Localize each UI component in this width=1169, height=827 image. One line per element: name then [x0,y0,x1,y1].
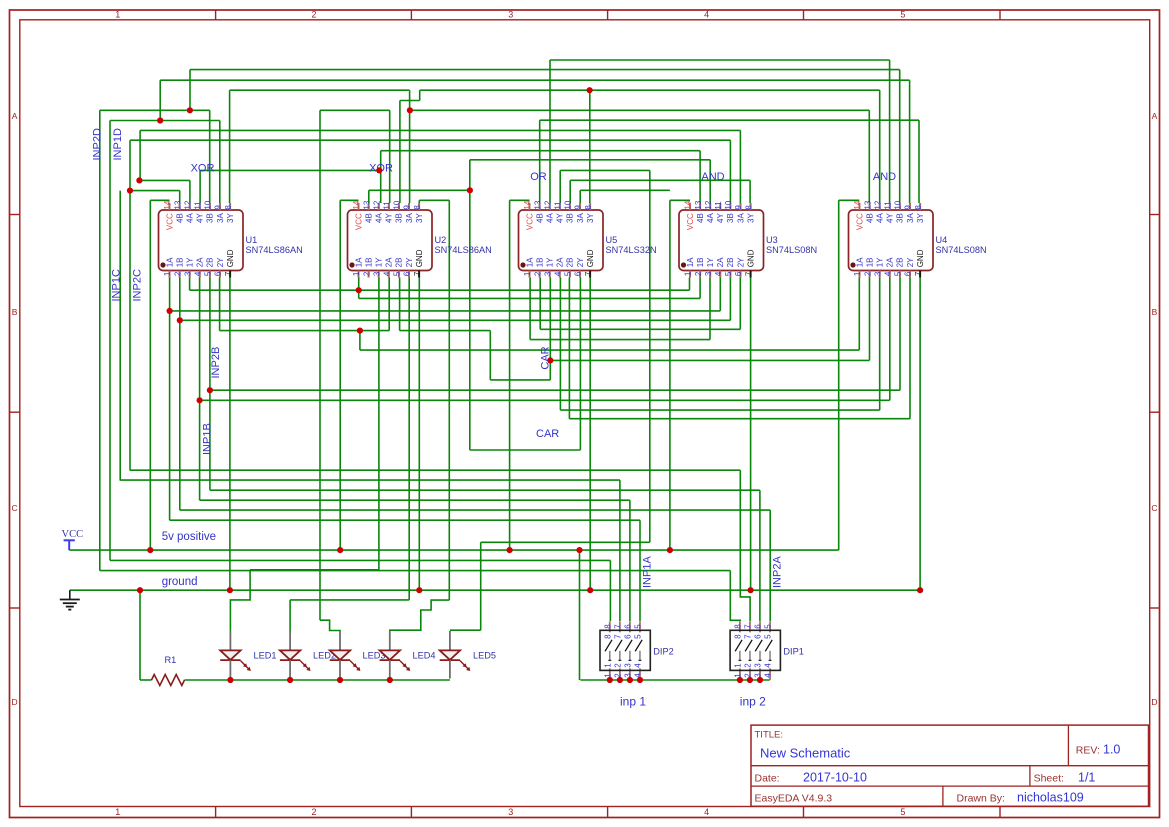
wire net y90 right to U4 pin12 [420,89,880,91]
svg-text:GND: GND [226,249,235,267]
svg-text:3B: 3B [395,213,404,223]
wire INP1D y560.4 to DIP2.8 [110,559,610,561]
wire U2 VCC riser to rail [339,200,341,550]
junction DIP1.2 rail [747,677,753,683]
svg-text:2A: 2A [385,257,394,267]
ground symbol [60,590,80,609]
svg-text:5: 5 [900,10,905,20]
svg-text:3A: 3A [906,213,915,223]
wire U4 VCC riser to rail [838,200,840,550]
svg-text:4: 4 [704,10,709,20]
wire INP2A y320.3 [180,319,731,321]
svg-text:5: 5 [564,271,573,276]
junction LED1 rail [227,677,233,683]
svg-text:U5: U5 [606,235,618,245]
svg-text:2B: 2B [566,258,575,268]
svg-text:1Y: 1Y [186,257,195,267]
svg-text:4A: 4A [706,213,715,223]
svg-text:1: 1 [163,271,172,276]
wire U5 VCC riser to rail [509,200,511,550]
svg-text:A: A [1152,111,1158,121]
svg-text:1B: 1B [865,258,874,268]
svg-text:3: 3 [183,271,192,276]
junction VCC rail x150 [147,547,153,553]
wire VCC rail y550.1 [69,549,839,551]
wire INP2C y140.2 to U3 pin10 [130,139,730,141]
wire U3 pin12 riser [709,160,711,203]
wire U4 pin3 1Y drop [879,278,881,411]
wire y150.7 to U3 pin13 [381,150,700,152]
svg-text:4: 4 [554,271,563,276]
svg-text:4: 4 [764,663,773,668]
svg-text:2: 2 [362,271,371,276]
wire y130.4 to U3 pin9 [140,129,740,131]
wire CAR staircase h [490,379,550,381]
wire U1 pin7 GND drop [229,278,231,591]
svg-text:6: 6 [734,271,743,276]
wire INP2D y570.6 to DIP1.8 [100,570,731,572]
wire DIP common riser x579.5 [579,550,581,680]
wire VCC feed U5 pin14 [510,199,530,201]
wire U2 pin5 drop CAR [399,278,401,331]
svg-text:10: 10 [393,200,402,209]
svg-text:3A: 3A [736,213,745,223]
svg-text:1Y: 1Y [546,257,555,267]
svg-text:4: 4 [634,673,643,678]
svg-text:LED4: LED4 [413,651,436,661]
wire R1 left stub [140,679,152,681]
junction INP1A y310.9 [167,308,173,314]
svg-text:3: 3 [543,271,552,276]
junction DIP1.1 rail [737,677,743,683]
junction INP2A y320.3 [177,317,183,323]
svg-text:2Y: 2Y [576,257,585,267]
junction LED4 rail [387,677,393,683]
wire z-drop x359.9 [359,331,361,351]
svg-text:Date:: Date: [755,773,780,785]
svg-text:8: 8 [584,205,593,210]
svg-text:1: 1 [523,271,532,276]
svg-text:5: 5 [204,271,213,276]
svg-text:3: 3 [508,807,513,817]
svg-text:10: 10 [204,200,213,209]
wire U5.4B y180.3 to U3 pin8 [570,179,750,181]
wire CAR y330.6 seg [400,330,491,332]
wire CAR y360.4 to U4.1B [550,359,869,361]
wire U3 pin10 riser [729,140,731,203]
XOR IC U2 SN74LS86AN [348,200,492,277]
svg-text:5: 5 [634,634,643,639]
svg-text:INP2A: INP2A [772,556,784,588]
svg-text:4A: 4A [876,213,885,223]
LED LED4 [380,631,411,679]
svg-text:4: 4 [634,663,643,668]
svg-text:3Y: 3Y [586,213,595,223]
wire U5 pin11 riser [559,170,561,203]
DIP switch DIP1 [730,621,780,680]
svg-text:1: 1 [684,271,693,276]
wire DIP2 pin8 drop [609,560,611,621]
svg-text:2Y: 2Y [906,257,915,267]
svg-text:5: 5 [724,271,733,276]
svg-text:U1: U1 [246,235,258,245]
frame tick right [1150,607,1160,609]
svg-text:4: 4 [704,807,709,817]
junction VCC rail x340 [337,547,343,553]
svg-text:INP1B: INP1B [201,423,213,455]
wire INP2D to U1 pin10 y110.3 [100,109,210,111]
junction XOR2 y170.4 [376,167,382,173]
svg-text:3: 3 [624,663,633,668]
svg-text:4: 4 [764,673,773,678]
wire U4 pin6 2Y drop [909,278,911,419]
wire LED2 feed drop [289,600,291,631]
svg-text:3B: 3B [726,213,735,223]
LED LED5 [440,631,471,679]
junction CAR y360.4 [547,357,553,363]
wire INP2C branch y190.6 to U1 pin13 [130,190,180,192]
svg-text:XOR: XOR [191,163,215,175]
svg-text:1A: 1A [855,257,864,267]
svg-text:Sheet:: Sheet: [1034,773,1064,785]
svg-text:LED1: LED1 [254,651,277,661]
junction y110 right [407,107,413,113]
wire DIP2 pin5 drop [639,520,641,621]
svg-text:VCC: VCC [686,213,695,230]
svg-text:2A: 2A [556,257,565,267]
svg-text:10: 10 [894,200,903,209]
junction VCC rail x669.9 [667,547,673,553]
svg-text:EasyEDA V4.9.3: EasyEDA V4.9.3 [755,793,833,805]
wire DIP common rail y680 [580,679,769,681]
svg-text:12: 12 [704,200,713,209]
svg-text:3Y: 3Y [746,213,755,223]
svg-text:AND: AND [701,171,724,183]
svg-text:U3: U3 [766,235,778,245]
resistor R1 [152,675,185,686]
frame tick bottom [803,807,805,818]
svg-text:4: 4 [884,271,893,276]
svg-text:ground: ground [162,576,198,588]
wire net y110.3 right to U4 pin13 [410,109,870,111]
svg-text:1: 1 [115,807,120,817]
svg-text:5: 5 [764,634,773,639]
wire drop x140.1 [139,130,141,180]
wire U1 pin10 riser [209,110,211,203]
svg-text:4: 4 [714,271,723,276]
svg-text:11: 11 [383,201,392,210]
svg-text:INP1A: INP1A [642,556,654,588]
svg-text:3Y: 3Y [226,213,235,223]
svg-text:2: 2 [614,663,623,668]
svg-text:2017-10-10: 2017-10-10 [803,771,867,785]
wire INP2A y510.1 to DIP1.5 [180,509,770,511]
wire drop x409.6 to U2 pin9 [409,90,411,203]
wire U2 pin1 drop [358,278,360,299]
wire DIP1 pin8 jog [730,571,740,621]
svg-text:11: 11 [194,201,203,210]
wire U4 pin5 drop [899,278,901,391]
wire U2 pin13 riser [368,190,370,203]
wire INP1C vertical [119,191,121,481]
svg-text:3Y: 3Y [415,213,424,223]
wire U4 pin12 riser [879,90,881,203]
wire INP1D vertical [109,121,111,561]
wire net U1.1Y y290.2 [190,289,690,291]
svg-text:VCC: VCC [354,213,363,230]
wire R1 riser [139,590,141,680]
wire U4 pin1 drop [858,278,860,351]
wire U3 pin9 riser [739,130,741,203]
VCC power symbol [64,540,75,550]
svg-text:2A: 2A [716,257,725,267]
svg-text:14: 14 [163,200,172,209]
wire U3 pin6 drop [739,278,741,330]
svg-text:2B: 2B [206,258,215,268]
svg-text:4Y: 4Y [886,213,895,223]
junction ground rail R1 [137,587,143,593]
junction INP2B y390.2 [207,387,213,393]
svg-text:12: 12 [183,200,192,209]
svg-text:4: 4 [383,271,392,276]
svg-text:7: 7 [614,624,623,629]
wire INP1A y310.9 [170,310,721,312]
wire U1 pin8 riser [229,90,231,203]
svg-text:1A: 1A [686,257,695,267]
svg-text:3B: 3B [566,213,575,223]
svg-text:1Y: 1Y [876,257,885,267]
wire U1 pin5 INP2B vertical [209,278,211,491]
wire LED5 net vertical x480.7 [480,542,482,630]
svg-text:4Y: 4Y [716,213,725,223]
wire CAR staircase v1 [489,331,491,380]
wire LED3 staircase [320,620,340,631]
svg-text:7: 7 [744,624,753,629]
svg-text:5: 5 [634,624,643,629]
svg-text:C: C [1151,503,1157,513]
svg-text:8: 8 [734,634,743,639]
wire U5 pin6 drop [579,278,581,451]
wire DIP2 pin7 drop [619,480,621,621]
wire U5 pin12 riser [549,60,551,203]
svg-text:3A: 3A [405,213,414,223]
svg-text:VCC: VCC [525,213,534,230]
svg-text:GND: GND [415,249,424,267]
svg-text:2B: 2B [395,258,404,268]
svg-text:4A: 4A [186,213,195,223]
svg-text:INP2D: INP2D [92,128,104,160]
svg-text:8: 8 [413,205,422,210]
svg-text:inp 2: inp 2 [740,695,766,709]
wire U1 pin12 riser [189,180,191,203]
svg-text:10: 10 [564,200,573,209]
frame tick bottom [215,807,217,818]
junction LED3 rail [337,677,343,683]
frame tick top [215,10,217,20]
svg-text:D: D [12,697,18,707]
title block [751,725,1149,806]
wire U2 pin4 drop [388,278,390,331]
XOR IC U1 SN74LS86AN [159,200,303,277]
svg-text:3: 3 [754,663,763,668]
svg-text:D: D [1151,697,1157,707]
svg-text:7: 7 [614,634,623,639]
svg-text:1: 1 [734,663,743,668]
wire DIP1 pin7 jog [740,470,750,621]
wire U2 pin11 riser [389,110,391,203]
svg-text:9: 9 [214,205,223,210]
svg-text:2: 2 [311,10,316,20]
wire U5 pin4 drop [559,278,561,411]
svg-text:INP2B: INP2B [210,347,222,379]
wire U1 VCC riser to rail [149,200,151,550]
svg-text:3B: 3B [206,213,215,223]
svg-text:1: 1 [604,663,613,668]
svg-text:A: A [12,111,18,121]
wire y120 right U5.13 to U4.8 [540,119,919,121]
svg-text:5v positive: 5v positive [162,531,216,543]
svg-text:1A: 1A [525,257,534,267]
wire VCC feed U2 pin14 [340,199,358,201]
wire U5 pin10 riser [569,180,571,203]
svg-text:14: 14 [853,200,862,209]
svg-text:INP1D: INP1D [112,128,124,160]
wire U3 pin5 drop [729,278,731,321]
svg-text:3Y: 3Y [916,213,925,223]
svg-text:6: 6 [754,634,763,639]
wire VCC feed U4 pin14 [839,199,860,201]
wire U4 pin13 riser [868,110,870,203]
wire U3.2Y to U5.1B y329.3 [540,328,740,330]
wire U4 pin2 drop [869,278,871,361]
frame tick top [410,10,412,20]
svg-text:DIP1: DIP1 [783,647,803,657]
svg-text:8: 8 [914,205,923,210]
svg-text:2Y: 2Y [736,257,745,267]
svg-text:1: 1 [352,271,361,276]
svg-text:1B: 1B [364,258,373,268]
svg-text:CAR: CAR [540,346,552,369]
wire INP1B y500.2 to DIP2.6 [200,499,630,501]
wire VCC feed U1 pin14 [150,199,169,201]
svg-text:3A: 3A [576,213,585,223]
LED LED3 [330,631,361,679]
svg-text:B: B [12,307,18,317]
LED LED2 [280,631,311,679]
wire U4 pin11 riser [889,60,891,203]
wire U4 pin10 riser [899,70,901,203]
svg-text:1Y: 1Y [375,257,384,267]
frame tick right [1150,411,1160,413]
svg-text:4: 4 [194,271,203,276]
junction ground rail U5.7 [587,587,593,593]
wire LED5 net y630.2 [450,629,481,631]
svg-text:inp 1: inp 1 [620,695,646,709]
svg-text:SN74LS86AN: SN74LS86AN [435,245,492,255]
junction VCC rail x509.6 [507,547,513,553]
wire U1 pin3 drop [189,278,191,291]
wire U2 pin10 riser [399,101,401,204]
junction U2.1 y290.2 [356,287,362,293]
svg-text:GND: GND [586,249,595,267]
junction VCC rail x579.5 [576,547,582,553]
svg-text:6: 6 [754,624,763,629]
svg-text:3: 3 [624,673,633,678]
svg-text:2: 2 [614,673,623,678]
wire net T2 y69.6 (INP2D branch) [190,69,900,71]
wire LED5 net y542.3 [481,541,650,543]
wire y159.8 to U3 pin12 [470,159,710,161]
svg-text:6: 6 [574,271,583,276]
wire U5.2Y big U y450 [470,449,581,451]
junction ground rail U4.7 [917,587,923,593]
AND IC U3 SN74LS08N [679,200,817,277]
frame tick top [607,10,609,20]
svg-text:C: C [12,503,18,513]
wire x469.8 vertical [469,160,471,450]
wire INP1D to U1 pin9 y120.5 [110,120,220,122]
wire U1 pin11 riser [199,170,201,203]
OR IC U5 SN74LS32N [519,200,657,277]
frame tick left [10,607,20,609]
svg-text:4B: 4B [364,213,373,223]
svg-text:1: 1 [604,673,613,678]
wire U5.4A y190.3 [580,189,670,191]
wire U3 pin2 drop [699,278,701,299]
frame tick left [10,411,20,413]
wire U5 pin7 GND drop [589,278,591,591]
junction ground rail U1.7 [227,587,233,593]
wire net T3 y80.2 [160,79,909,81]
wire U1 pin2 INP2A vertical [179,278,181,511]
wire U3 VCC riser to rail [669,200,671,550]
svg-text:1A: 1A [165,257,174,267]
svg-text:14: 14 [684,200,693,209]
svg-text:B: B [1152,307,1158,317]
wire net T1 y60 [550,59,890,61]
wire U2 pin12 riser below dot [380,170,382,203]
wire drop to y110 dot [189,70,191,111]
frame tick bottom [999,807,1001,818]
svg-text:3: 3 [754,673,763,678]
wire DIP2 pin6 drop [629,500,631,621]
wire U5 pin1 drop [529,278,531,340]
svg-text:7: 7 [224,271,233,276]
wire LED5 net vertical x649.8 [649,170,651,542]
svg-text:REV:: REV: [1076,745,1100,757]
junction DIP2.1 rail [607,677,613,683]
wire ground rail y590.2 [70,589,920,591]
wire U1 pin13 riser [179,191,181,203]
junction DIP2.3 rail [627,677,633,683]
svg-text:1.0: 1.0 [1103,743,1120,757]
wire U3 pin1 drop [689,278,691,291]
wire U4 pin7 GND drop [919,278,921,591]
svg-text:2: 2 [694,271,703,276]
wire U1 pin6 drop [219,278,221,331]
svg-text:9: 9 [904,205,913,210]
svg-text:2A: 2A [886,257,895,267]
svg-text:U4: U4 [936,235,948,245]
svg-text:5: 5 [900,807,905,817]
frame tick left [10,214,20,216]
svg-text:New Schematic: New Schematic [760,746,851,761]
svg-text:2B: 2B [726,258,735,268]
wire U4.2Y to U5.2B y418.7 [569,418,910,420]
wire DIP1 pin6 drop [759,490,761,621]
svg-text:14: 14 [352,200,361,209]
svg-text:INP1C: INP1C [111,269,123,301]
